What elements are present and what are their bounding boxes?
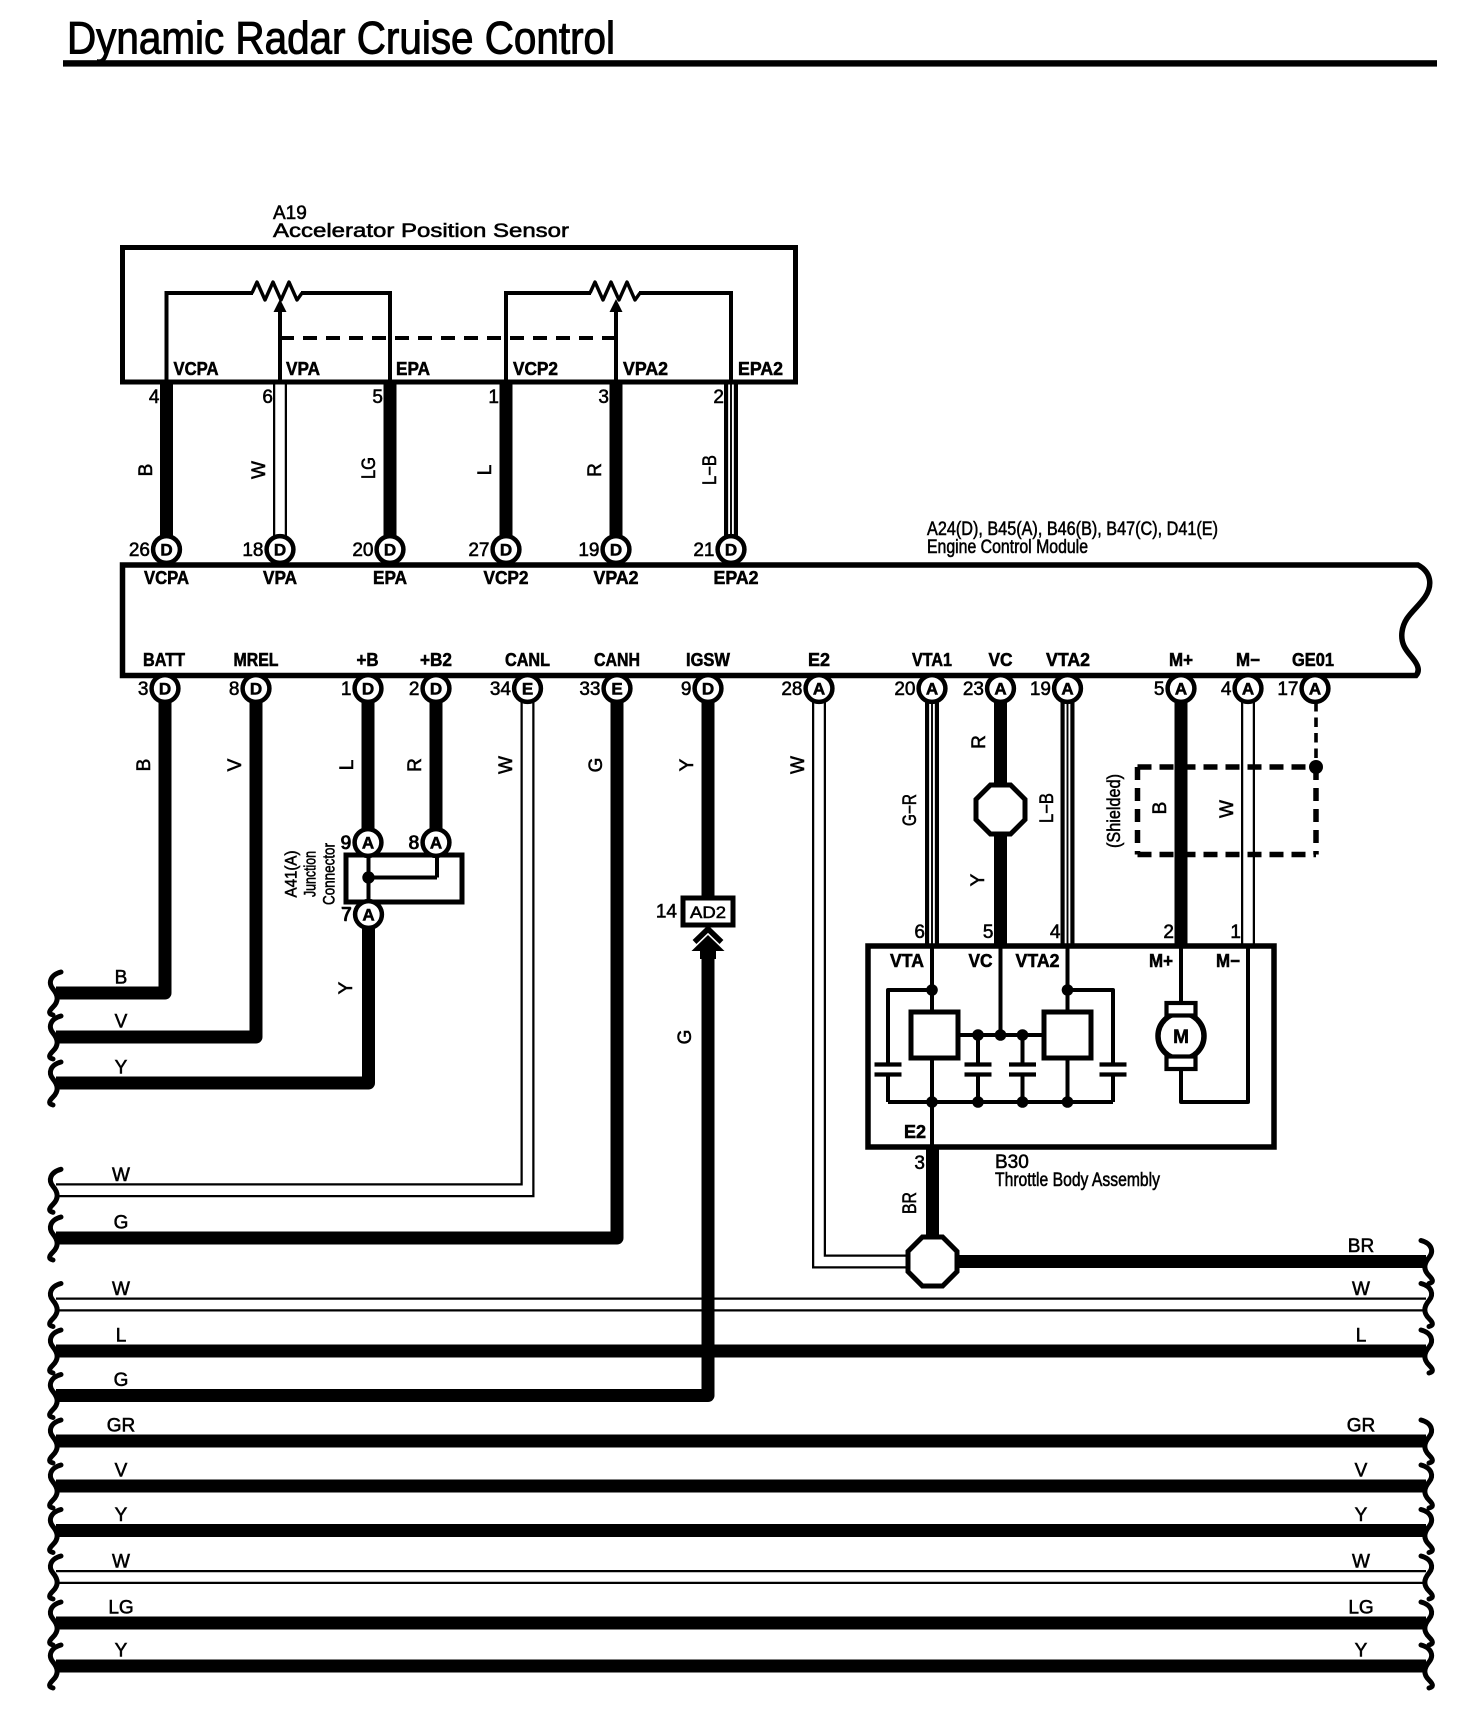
title underline (63, 60, 1437, 66)
svg-text:A: A (1061, 680, 1073, 699)
svg-text:Y: Y (115, 1641, 128, 1662)
svg-text:W: W (496, 756, 517, 774)
A19 inner wire VCP2 riser (504, 291, 591, 382)
svg-text:D: D (160, 541, 172, 560)
svg-text:G−R: G−R (900, 794, 921, 826)
ECM bottom pin 20(A) (894, 675, 945, 702)
svg-text:Y: Y (115, 1505, 128, 1526)
svg-text:D: D (725, 541, 737, 560)
A19 inner wire pot-1 to EPA (301, 291, 392, 382)
B30 inner right branch + capacitor C4 (1068, 990, 1127, 1102)
ECM bottom pin 3(D) (138, 675, 178, 702)
resistor pot-1 element (252, 282, 302, 300)
svg-text:W: W (1352, 1552, 1370, 1573)
svg-text:21: 21 (693, 540, 714, 561)
B30 Throttle Body Assembly box (868, 946, 1274, 1147)
svg-text:GE01: GE01 (1292, 650, 1334, 670)
ECM top pin 27(D) (468, 536, 519, 563)
ECM bottom terminal labels (143, 650, 1334, 670)
svg-text:VC: VC (969, 951, 993, 971)
bus labels left (107, 968, 136, 1662)
svg-text:B: B (1150, 802, 1171, 815)
svg-text:VTA1: VTA1 (912, 650, 952, 670)
svg-text:LG: LG (1348, 1598, 1373, 1619)
svg-text:Y: Y (677, 758, 698, 771)
svg-text:M+: M+ (1149, 951, 1173, 971)
svg-text:A: A (926, 680, 938, 699)
svg-text:D: D (159, 680, 171, 699)
wire G (below AD2 down, left to edge) (56, 948, 708, 1396)
wire L bus (full width) (56, 1345, 1426, 1358)
svg-text:D: D (250, 680, 262, 699)
svg-text:Engine Control Module: Engine Control Module (927, 537, 1088, 558)
left wire-continuation hooks (50, 972, 61, 1688)
svg-text:19: 19 (1030, 679, 1051, 700)
wire M- W (ECM 4-A down to throttle pin 1) (1241, 702, 1255, 947)
svg-text:R: R (969, 735, 990, 749)
svg-text:Y: Y (336, 981, 357, 994)
svg-text:3: 3 (138, 679, 149, 700)
svg-text:V: V (225, 758, 246, 771)
pot-2 wiper arrow (VPA2) (610, 299, 623, 382)
A41 connector label (282, 843, 339, 905)
svg-text:D: D (274, 541, 286, 560)
B30 inner VC line (999, 946, 1003, 1035)
svg-text:AD2: AD2 (690, 903, 726, 922)
wire GR bus (full width) (56, 1435, 1426, 1448)
ECM bottom pin 28(A) (781, 675, 832, 702)
B30 header (995, 1152, 1160, 1191)
A19 terminal labels (174, 359, 784, 379)
wire CANL W (ECM 34-E down, left to edge) (56, 702, 528, 1190)
wire colour labels (below ECM) (134, 735, 1238, 1214)
svg-text:BATT: BATT (143, 650, 185, 670)
svg-text:9: 9 (340, 833, 351, 854)
svg-text:A: A (1175, 680, 1187, 699)
A41 pin 7(A) (341, 901, 381, 928)
shield terminal (BR junction) (908, 1237, 957, 1286)
svg-text:5: 5 (1154, 679, 1165, 700)
svg-text:GR: GR (107, 1416, 136, 1437)
svg-text:VTA2: VTA2 (1046, 650, 1090, 670)
svg-text:W: W (788, 756, 809, 774)
svg-text:A: A (430, 834, 442, 853)
svg-text:14: 14 (656, 902, 678, 923)
svg-text:Y: Y (1355, 1505, 1368, 1526)
svg-text:Connector: Connector (320, 843, 339, 905)
svg-text:A: A (362, 834, 374, 853)
A19 pin numbers (149, 387, 724, 408)
ECM bottom pin 5(A) (1154, 675, 1194, 702)
wire VTA1 G-R (ECM 20-A to throttle pin 6) (930, 702, 934, 947)
svg-text:R: R (585, 463, 606, 477)
ECM top pin 26(D) (129, 536, 180, 563)
wire VTA2 L-B (ECM 19-A to throttle pin 4) (1066, 702, 1070, 947)
svg-text:W: W (1352, 1279, 1370, 1300)
svg-text:7: 7 (341, 905, 352, 926)
svg-text:5: 5 (372, 387, 383, 408)
svg-text:LG: LG (108, 1598, 133, 1619)
mechanical link (dashed) between wipers (280, 336, 616, 340)
wire Y bus (full width) (56, 1524, 1426, 1537)
wire VPA2 R (A19 pin 3 to ECM 19-D) (610, 382, 623, 536)
A19 header (273, 203, 570, 242)
B30 M- lead (1181, 946, 1248, 1102)
svg-text:Y: Y (115, 1058, 128, 1079)
svg-text:Accelerator Position Sensor: Accelerator Position Sensor (273, 221, 570, 242)
AD2 pin number 14 (656, 902, 678, 923)
svg-text:18: 18 (242, 540, 263, 561)
wire VCP2 L (A19 pin 1 to ECM 27-D) (500, 382, 513, 536)
resistor pot-2 element (590, 282, 640, 300)
svg-text:A: A (1309, 680, 1321, 699)
wire M+ B (ECM 5-A to throttle pin 2) (1175, 702, 1188, 947)
svg-text:27: 27 (468, 540, 489, 561)
svg-text:1: 1 (488, 387, 499, 408)
wire BATT B (ECM 3-D down, left to edge) (56, 702, 165, 993)
pot-1 wiper arrow (VPA) (274, 299, 287, 382)
svg-text:Y: Y (1355, 1641, 1368, 1662)
svg-text:23: 23 (963, 679, 984, 700)
svg-text:L−B: L−B (700, 455, 721, 485)
svg-text:D: D (384, 541, 396, 560)
right wire-continuation hooks (1421, 1241, 1432, 1689)
B30 sensor IC U2 (VTA) (911, 1012, 958, 1058)
svg-text:VCP2: VCP2 (484, 568, 529, 588)
A19 box (Accelerator Position Sensor) (123, 248, 796, 383)
ECM bottom pin 23(A) (963, 675, 1014, 702)
B30 ground rail (888, 1100, 1113, 1104)
svg-text:GR: GR (1347, 1416, 1376, 1437)
svg-text:M−: M− (1216, 951, 1240, 971)
svg-text:W: W (249, 461, 270, 479)
svg-text:M+: M+ (1169, 650, 1193, 670)
wire EPA2 L-B (A19 pin 2 to ECM 21-D) (729, 382, 733, 536)
wire W bus lower (full width) (56, 1570, 1426, 1584)
svg-text:MREL: MREL (234, 650, 279, 670)
svg-text:2: 2 (1163, 922, 1174, 943)
ECM header (927, 519, 1218, 558)
svg-text:4: 4 (1221, 679, 1232, 700)
svg-text:M: M (1173, 1027, 1189, 1048)
B30 inner VTA line (930, 946, 934, 1147)
svg-text:VCPA: VCPA (144, 568, 189, 588)
svg-text:V: V (115, 1461, 128, 1482)
svg-text:G: G (114, 1213, 129, 1234)
B30 inner VTA2 line (1066, 946, 1070, 1102)
svg-text:Y: Y (968, 873, 989, 886)
svg-text:VPA: VPA (286, 359, 320, 379)
svg-text:EPA2: EPA2 (738, 359, 783, 379)
wire E2 W (ECM 28-A down, right to shield octagon) (819, 702, 909, 1262)
svg-text:B: B (134, 759, 155, 772)
wire +B2 R (ECM 2-D to junction 8-A) (430, 702, 443, 829)
wire LG bus (full width) (56, 1617, 1426, 1630)
wire GE01 shield drain (dashed from ECM 17-A) (1314, 702, 1318, 766)
svg-text:B: B (136, 464, 157, 477)
ECM top pin 18(D) (242, 536, 293, 563)
B30 sensor IC U3 (VTA2) (1044, 1012, 1091, 1058)
wire BR (octagon right to edge) (956, 1255, 1426, 1268)
svg-text:BR: BR (1348, 1236, 1374, 1257)
svg-text:W: W (112, 1552, 130, 1573)
svg-text:4: 4 (1050, 922, 1061, 943)
B30 terminal labels (890, 951, 1240, 971)
svg-text:Junction: Junction (301, 851, 320, 897)
svg-text:+B: +B (357, 650, 379, 670)
svg-text:IGSW: IGSW (686, 650, 730, 670)
svg-text:D: D (500, 541, 512, 560)
svg-text:LG: LG (359, 457, 380, 479)
svg-text:1: 1 (341, 679, 352, 700)
junction node on shield (1309, 760, 1323, 774)
ECM top pin 21(D) (693, 536, 744, 563)
svg-text:BR: BR (900, 1192, 921, 1214)
svg-text:6: 6 (914, 922, 925, 943)
motor M1 (throttle motor) (1158, 1003, 1204, 1069)
ECM bottom pin 34(E) (490, 675, 541, 702)
svg-text:5: 5 (983, 922, 994, 943)
svg-text:M−: M− (1236, 650, 1260, 670)
wire colour labels (A19-ECM) (136, 455, 721, 485)
svg-text:Dynamic Radar Cruise Control: Dynamic Radar Cruise Control (67, 13, 615, 64)
svg-text:W: W (112, 1165, 130, 1186)
svg-text:L: L (337, 760, 358, 771)
B30 mid rail between sensors (932, 1033, 1068, 1037)
svg-text:CANL: CANL (505, 650, 550, 670)
svg-text:R: R (405, 758, 426, 772)
ECM bottom pin 8(D) (229, 675, 269, 702)
svg-text:W: W (112, 1279, 130, 1300)
svg-text:W: W (1217, 800, 1238, 818)
B30 inner left branch + capacitor C1 (875, 990, 933, 1102)
svg-text:A: A (813, 680, 825, 699)
svg-text:D: D (362, 680, 374, 699)
svg-text:(Shielded): (Shielded) (1104, 774, 1124, 848)
svg-text:1: 1 (1230, 922, 1241, 943)
wire EPA LG (A19 pin 5 to ECM 20-D) (384, 382, 397, 536)
svg-text:17: 17 (1277, 679, 1298, 700)
svg-text:VCP2: VCP2 (513, 359, 558, 379)
A41 inner bus (362, 855, 437, 902)
svg-text:G: G (586, 758, 607, 773)
svg-text:CANH: CANH (594, 650, 640, 670)
svg-text:VTA: VTA (890, 951, 924, 971)
A41 pin 8(A) (409, 829, 449, 856)
svg-text:3: 3 (914, 1153, 925, 1174)
A41 pin numbers (340, 833, 419, 926)
svg-text:6: 6 (262, 387, 273, 408)
B30 capacitor C3 (1009, 1035, 1036, 1102)
wire IGSW Y (ECM 9-D to AD2) (702, 702, 715, 899)
wire VC R (ECM 23-A to octagon) and Y (octagon to throttle pin 5) (994, 702, 1007, 947)
ECM top pin 19(D) (578, 536, 629, 563)
svg-text:20: 20 (894, 679, 915, 700)
svg-text:34: 34 (490, 679, 512, 700)
ECM bottom pin 4(A) (1221, 675, 1261, 702)
wire VPA W (A19 pin 6 to ECM 18-D) (273, 382, 287, 536)
wire Y bus bottom (full width) (56, 1660, 1426, 1673)
svg-text:E: E (522, 680, 533, 699)
svg-text:G: G (675, 1030, 696, 1045)
ECM bottom pin 2(D) (409, 675, 449, 702)
ECM bottom pin 1(D) (341, 675, 381, 702)
A19 inner wire pot-2 to EPA2 (639, 291, 733, 382)
svg-text:EPA2: EPA2 (714, 568, 759, 588)
svg-text:E: E (611, 680, 622, 699)
A19 inner wire VCPA riser (165, 291, 254, 382)
svg-text:8: 8 (408, 833, 419, 854)
svg-text:G: G (114, 1370, 129, 1391)
wire VCPA B (A19 pin 4 to ECM 26-D) (160, 382, 173, 536)
svg-text:2: 2 (713, 387, 724, 408)
svg-text:A41(A): A41(A) (282, 851, 301, 898)
svg-text:EPA: EPA (396, 359, 430, 379)
svg-text:+B2: +B2 (420, 650, 452, 670)
svg-text:33: 33 (579, 679, 600, 700)
wire V bus (full width) (56, 1480, 1426, 1493)
svg-text:3: 3 (598, 387, 609, 408)
svg-text:L: L (1356, 1326, 1367, 1347)
shield box (dashed) around M+ / M- wires (1138, 767, 1317, 855)
svg-text:19: 19 (578, 540, 599, 561)
svg-text:VPA: VPA (263, 568, 297, 588)
wire W bus (full width) (56, 1298, 1426, 1312)
AD2 fasten arrow (692, 929, 725, 959)
svg-text:20: 20 (352, 540, 373, 561)
svg-text:8: 8 (229, 679, 240, 700)
svg-text:E2: E2 (904, 1122, 926, 1142)
B30 capacitor C2 (965, 1035, 992, 1102)
A41 junction connector box (346, 855, 462, 902)
svg-text:L: L (116, 1326, 127, 1347)
svg-text:B: B (115, 968, 128, 989)
B30 E2 label (904, 1122, 926, 1142)
svg-text:VPA2: VPA2 (594, 568, 639, 588)
wire Y from junction 7-A (down, left to edge) (56, 928, 369, 1083)
wire MREL V (ECM 8-D down, left to edge) (56, 702, 256, 1037)
svg-text:A: A (362, 906, 374, 925)
svg-text:4: 4 (149, 387, 160, 408)
ECM bottom pin 19(A) (1030, 675, 1081, 702)
ECM top terminal labels (144, 568, 759, 588)
svg-text:28: 28 (781, 679, 802, 700)
AD2 connector box (pin 14) (683, 898, 733, 925)
svg-text:2: 2 (409, 679, 420, 700)
svg-text:D: D (430, 680, 442, 699)
svg-text:26: 26 (129, 540, 150, 561)
bus labels right (1347, 1236, 1376, 1662)
svg-text:EPA: EPA (373, 568, 407, 588)
svg-text:VPA2: VPA2 (623, 359, 668, 379)
svg-text:9: 9 (681, 679, 692, 700)
shield terminal (VC wire) (976, 785, 1025, 834)
svg-text:A: A (1242, 680, 1254, 699)
svg-text:V: V (1355, 1461, 1368, 1482)
svg-text:L: L (475, 465, 496, 476)
ECM bottom pin 17(A) (1277, 675, 1328, 702)
ECM top pin 20(D) (352, 536, 403, 563)
B30 junction dots (926, 984, 1073, 1108)
svg-text:A: A (994, 680, 1006, 699)
(Shielded) label (1104, 774, 1124, 848)
B30 pin numbers (914, 922, 1241, 1174)
U1 Engine Control Module box (123, 565, 1430, 676)
svg-text:D: D (610, 541, 622, 560)
title (67, 13, 615, 64)
B30 M+ lead (1179, 946, 1183, 1004)
svg-text:E2: E2 (808, 650, 830, 670)
wire CANH G (ECM 33-E down, left to edge) (56, 702, 617, 1238)
ECM bottom pin 33(E) (579, 675, 630, 702)
wire +B L (ECM 1-D to junction 9-A) (362, 702, 375, 829)
svg-text:D: D (702, 680, 714, 699)
ECM bottom pin 9(D) (681, 675, 721, 702)
svg-text:VC: VC (989, 650, 1013, 670)
svg-text:Throttle Body Assembly: Throttle Body Assembly (995, 1170, 1160, 1191)
wire BR (throttle E2 pin 3 to octagon) (926, 1147, 939, 1238)
svg-text:VCPA: VCPA (174, 359, 219, 379)
A41 pin 9(A) (341, 829, 381, 856)
svg-text:VTA2: VTA2 (1016, 951, 1060, 971)
svg-text:L−B: L−B (1037, 793, 1058, 823)
svg-text:V: V (115, 1012, 128, 1033)
